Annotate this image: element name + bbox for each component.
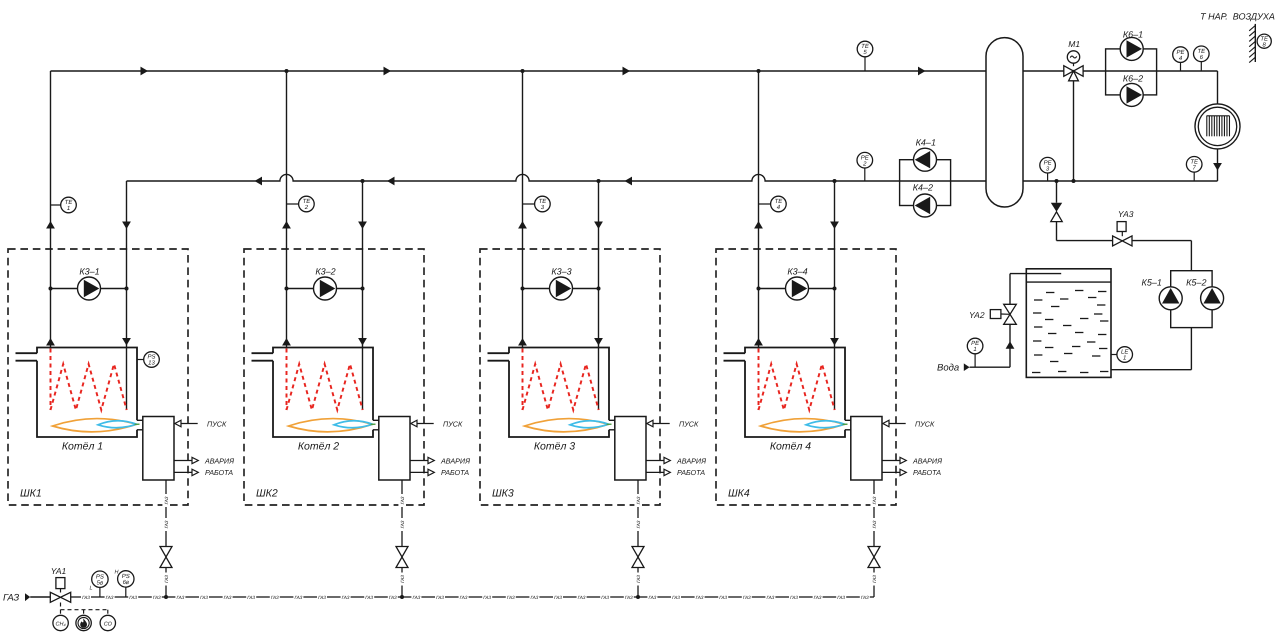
svg-text:ГАЗ: ГАЗ bbox=[648, 595, 656, 600]
svg-text:ГАЗ: ГАЗ bbox=[153, 595, 161, 600]
svg-text:ШК1: ШК1 bbox=[20, 488, 42, 500]
svg-text:1: 1 bbox=[1123, 355, 1126, 362]
svg-text:5в: 5в bbox=[97, 579, 103, 586]
svg-text:К4–2: К4–2 bbox=[913, 183, 933, 193]
svg-text:ГАЗ: ГАЗ bbox=[790, 595, 798, 600]
svg-text:TE: TE bbox=[65, 199, 74, 206]
svg-text:ГАЗ: ГАЗ bbox=[176, 595, 184, 600]
svg-text:ГАЗ: ГАЗ bbox=[483, 595, 491, 600]
svg-text:TE: TE bbox=[1260, 35, 1269, 42]
svg-text:TE: TE bbox=[539, 198, 548, 205]
svg-text:ГАЗ: ГАЗ bbox=[247, 595, 255, 600]
svg-text:ГАЗ: ГАЗ bbox=[164, 575, 169, 583]
svg-text:ГАЗ: ГАЗ bbox=[400, 496, 405, 504]
svg-text:ШК2: ШК2 bbox=[256, 488, 278, 500]
svg-text:К3–4: К3–4 bbox=[787, 267, 807, 277]
svg-text:ПУСК: ПУСК bbox=[915, 419, 935, 428]
svg-text:2: 2 bbox=[304, 204, 309, 211]
svg-text:H: H bbox=[115, 570, 119, 576]
svg-text:ГАЗ: ГАЗ bbox=[872, 496, 877, 504]
svg-text:ГАЗ: ГАЗ bbox=[82, 595, 90, 600]
svg-text:РАБОТА: РАБОТА bbox=[205, 468, 233, 477]
svg-text:ГАЗ: ГАЗ bbox=[766, 595, 774, 600]
svg-text:ГАЗ: ГАЗ bbox=[106, 595, 114, 600]
svg-text:ПУСК: ПУСК bbox=[679, 419, 699, 428]
svg-text:ГАЗ: ГАЗ bbox=[625, 595, 633, 600]
svg-text:ГАЗ: ГАЗ bbox=[271, 595, 279, 600]
svg-text:РАБОТА: РАБОТА bbox=[677, 468, 705, 477]
svg-text:К3–2: К3–2 bbox=[315, 267, 335, 277]
svg-text:ГАЗ: ГАЗ bbox=[636, 520, 641, 528]
svg-text:LE: LE bbox=[1121, 349, 1129, 356]
svg-text:YA1: YA1 bbox=[51, 566, 67, 576]
svg-text:ГАЗ: ГАЗ bbox=[636, 575, 641, 583]
svg-text:ГАЗ: ГАЗ bbox=[164, 520, 169, 528]
svg-text:TE: TE bbox=[1190, 159, 1199, 166]
svg-text:АВАРИЯ: АВАРИЯ bbox=[912, 456, 942, 465]
svg-text:ПУСК: ПУСК bbox=[443, 419, 463, 428]
svg-text:ГАЗ: ГАЗ bbox=[743, 595, 751, 600]
svg-text:ГАЗ: ГАЗ bbox=[200, 595, 208, 600]
svg-text:2: 2 bbox=[862, 160, 867, 167]
svg-text:PS: PS bbox=[96, 573, 104, 580]
svg-text:TE: TE bbox=[1197, 48, 1206, 55]
svg-text:ШК3: ШК3 bbox=[492, 488, 514, 500]
svg-text:ГАЗ: ГАЗ bbox=[814, 595, 822, 600]
svg-text:ГАЗ: ГАЗ bbox=[318, 595, 326, 600]
svg-text:ГАЗ: ГАЗ bbox=[294, 595, 302, 600]
svg-text:ГАЗ: ГАЗ bbox=[460, 595, 468, 600]
svg-text:YA2: YA2 bbox=[969, 310, 985, 320]
svg-text:Котёл 3: Котёл 3 bbox=[534, 441, 575, 453]
svg-text:ГАЗ: ГАЗ bbox=[224, 595, 232, 600]
svg-text:К4–1: К4–1 bbox=[916, 137, 936, 147]
svg-text:ГАЗ: ГАЗ bbox=[342, 595, 350, 600]
svg-text:ГАЗ: ГАЗ bbox=[507, 595, 515, 600]
svg-text:1: 1 bbox=[67, 205, 70, 212]
svg-text:Котёл 2: Котёл 2 bbox=[298, 441, 339, 453]
svg-text:ГАЗ: ГАЗ bbox=[400, 575, 405, 583]
svg-text:ГАЗ: ГАЗ bbox=[861, 595, 869, 600]
svg-text:ГАЗ: ГАЗ bbox=[164, 496, 169, 504]
svg-text:ГАЗ: ГАЗ bbox=[3, 593, 19, 604]
svg-text:ГАЗ: ГАЗ bbox=[400, 520, 405, 528]
svg-text:К6–2: К6–2 bbox=[1123, 74, 1143, 84]
svg-text:К6–1: К6–1 bbox=[1123, 30, 1143, 40]
svg-text:ГАЗ: ГАЗ bbox=[872, 520, 877, 528]
svg-text:ГАЗ: ГАЗ bbox=[636, 496, 641, 504]
svg-text:ГАЗ: ГАЗ bbox=[837, 595, 845, 600]
svg-text:К5–1: К5–1 bbox=[1142, 278, 1162, 288]
svg-text:ГАЗ: ГАЗ bbox=[696, 595, 704, 600]
svg-text:Котёл 4: Котёл 4 bbox=[770, 441, 811, 453]
svg-text:Котёл 1: Котёл 1 bbox=[62, 441, 103, 453]
svg-text:ПУСК: ПУСК bbox=[207, 419, 227, 428]
svg-text:ГАЗ: ГАЗ bbox=[129, 595, 137, 600]
svg-text:L: L bbox=[90, 586, 93, 592]
svg-text:13: 13 bbox=[148, 360, 155, 367]
svg-text:6в: 6в bbox=[123, 579, 129, 586]
svg-text:ГАЗ: ГАЗ bbox=[719, 595, 727, 600]
svg-text:PE: PE bbox=[1176, 49, 1185, 56]
svg-text:PS: PS bbox=[122, 573, 130, 580]
svg-text:ГАЗ: ГАЗ bbox=[578, 595, 586, 600]
svg-text:PE: PE bbox=[971, 340, 980, 347]
svg-text:TE: TE bbox=[303, 198, 312, 205]
svg-text:ГАЗ: ГАЗ bbox=[389, 595, 397, 600]
svg-text:ШК4: ШК4 bbox=[728, 488, 750, 500]
svg-text:ГАЗ: ГАЗ bbox=[872, 575, 877, 583]
svg-text:PS: PS bbox=[147, 354, 155, 361]
svg-text:РАБОТА: РАБОТА bbox=[441, 468, 469, 477]
svg-text:ГАЗ: ГАЗ bbox=[672, 595, 680, 600]
svg-text:ГАЗ: ГАЗ bbox=[365, 595, 373, 600]
svg-text:TE: TE bbox=[775, 198, 784, 205]
svg-text:Т НАР. ВОЗДУХА: Т НАР. ВОЗДУХА bbox=[1200, 12, 1275, 22]
svg-text:АВАРИЯ: АВАРИЯ bbox=[676, 456, 706, 465]
svg-text:К3–1: К3–1 bbox=[79, 267, 99, 277]
svg-text:Вода: Вода bbox=[937, 363, 959, 374]
svg-text:АВАРИЯ: АВАРИЯ bbox=[440, 456, 470, 465]
svg-text:АВАРИЯ: АВАРИЯ bbox=[204, 456, 234, 465]
svg-text:PE: PE bbox=[861, 154, 870, 161]
svg-text:К5–2: К5–2 bbox=[1186, 278, 1206, 288]
svg-text:СО: СО bbox=[104, 621, 113, 627]
svg-text:СН₄: СН₄ bbox=[56, 621, 66, 627]
svg-text:ГАЗ: ГАЗ bbox=[436, 595, 444, 600]
svg-text:ГАЗ: ГАЗ bbox=[530, 595, 538, 600]
svg-text:YA3: YA3 bbox=[1118, 209, 1134, 219]
svg-text:TE: TE bbox=[861, 43, 870, 50]
svg-text:ГАЗ: ГАЗ bbox=[412, 595, 420, 600]
svg-text:ГАЗ: ГАЗ bbox=[554, 595, 562, 600]
svg-text:РАБОТА: РАБОТА bbox=[913, 468, 941, 477]
svg-text:ГАЗ: ГАЗ bbox=[601, 595, 609, 600]
svg-text:К3–3: К3–3 bbox=[551, 267, 571, 277]
svg-text:PE: PE bbox=[1044, 159, 1053, 166]
svg-text:M1: M1 bbox=[1068, 39, 1080, 49]
svg-text:1: 1 bbox=[973, 346, 976, 353]
